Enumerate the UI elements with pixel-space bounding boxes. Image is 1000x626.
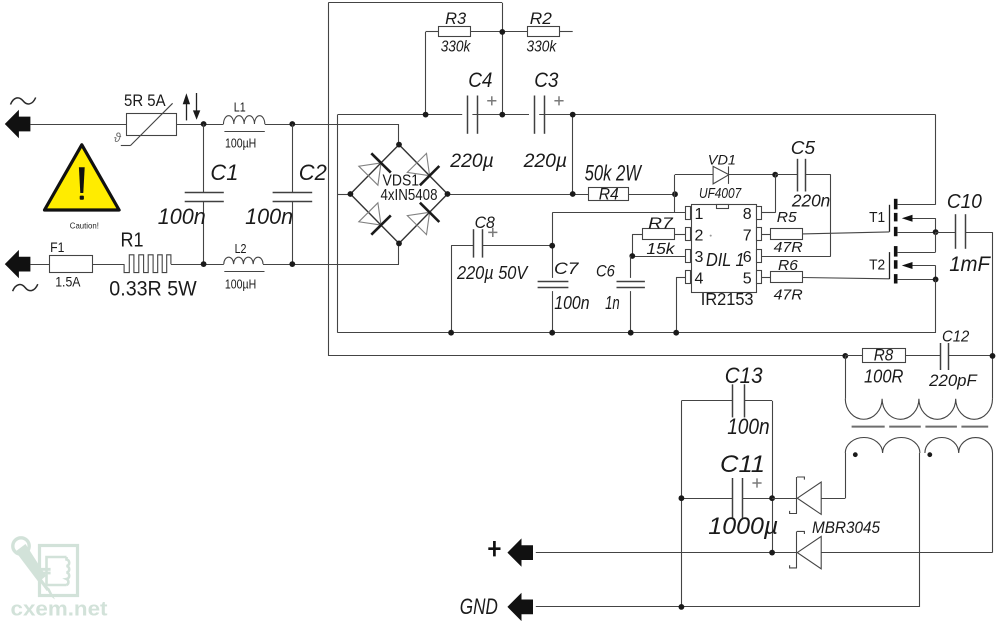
svg-text:2: 2 bbox=[695, 227, 704, 244]
capacitor C5 220n bbox=[775, 174, 798, 176]
fuse F1 1.5A bbox=[49, 264, 92, 266]
svg-text:C12: C12 bbox=[942, 329, 969, 346]
resistor R8 100R bbox=[845, 355, 862, 357]
wire bottom AC to fuse bbox=[30, 264, 49, 266]
wire C8 minus to ground bbox=[451, 246, 453, 333]
wire bridge minus stub bbox=[338, 194, 351, 196]
node T1 source midpoint bbox=[933, 229, 939, 235]
svg-text:100n: 100n bbox=[245, 204, 293, 229]
wire VCC branch vertical bbox=[552, 213, 554, 278]
svg-text:T2: T2 bbox=[869, 258, 885, 274]
svg-text:100n: 100n bbox=[158, 204, 206, 229]
svg-text:330k: 330k bbox=[527, 39, 558, 56]
wire VCC vertical bbox=[674, 175, 676, 213]
wire L2 to bridge bbox=[263, 264, 399, 266]
wire midpoint to T2 drain bbox=[935, 232, 937, 252]
svg-text:R7: R7 bbox=[648, 216, 674, 233]
wire thermistor to L1 bbox=[177, 124, 224, 126]
svg-text:R2: R2 bbox=[530, 10, 552, 28]
diode VD1 UF4007 bbox=[675, 174, 713, 176]
node AC top / C1 tap bbox=[201, 121, 207, 127]
node C8 plus bbox=[549, 243, 555, 249]
node AC bottom / C1 bbox=[201, 261, 207, 267]
svg-text:100n: 100n bbox=[727, 414, 770, 439]
svg-text:1000µ: 1000µ bbox=[708, 513, 778, 540]
transformer secondary winding B bbox=[925, 437, 993, 453]
node rail R2 tap bbox=[570, 112, 576, 118]
node VD1 cathode VB bbox=[772, 172, 778, 178]
node R3-R2 junction bbox=[499, 29, 505, 35]
capacitor C3 220u electrolytic bbox=[534, 96, 536, 134]
svg-text:C5: C5 bbox=[791, 138, 816, 158]
phase dot secondary B bbox=[927, 452, 932, 457]
transformer core bbox=[852, 426, 885, 428]
svg-text:220µ: 220µ bbox=[523, 150, 567, 172]
svg-text:R4: R4 bbox=[599, 186, 619, 204]
current direction arrow up bbox=[186, 104, 188, 120]
svg-text:GND: GND bbox=[460, 594, 498, 619]
node bridge top bbox=[396, 142, 402, 148]
node ground C8 bbox=[448, 330, 454, 336]
svg-text:220n: 220n bbox=[791, 191, 830, 211]
svg-text:C8: C8 bbox=[475, 213, 496, 232]
inductor L1 100uH bbox=[224, 116, 265, 124]
wire T2 source to ground bbox=[935, 279, 937, 332]
svg-text:4xIN5408: 4xIN5408 bbox=[381, 187, 438, 204]
svg-text:220pF: 220pF bbox=[928, 372, 977, 390]
capacitor C11 1000u electrolytic bbox=[681, 498, 732, 500]
svg-text:47R: 47R bbox=[774, 239, 803, 256]
thermistor RK1 5R 5A bbox=[127, 114, 177, 136]
node plus rail C11 tap bbox=[769, 550, 775, 556]
capacitor C12 220pF bbox=[905, 355, 941, 357]
svg-text:C13: C13 bbox=[725, 363, 764, 388]
svg-text:L2: L2 bbox=[235, 242, 247, 256]
svg-text:1n: 1n bbox=[605, 293, 620, 313]
wire up to bridge bottom bbox=[398, 243, 400, 264]
svg-text:VD1: VD1 bbox=[708, 152, 736, 168]
svg-text:R1: R1 bbox=[121, 230, 144, 252]
svg-text:C11: C11 bbox=[720, 451, 765, 478]
capacitor C6 1n bbox=[630, 256, 632, 278]
node ground COM bbox=[673, 330, 679, 336]
svg-text:1mF: 1mF bbox=[949, 253, 991, 276]
resistor R7 15k bbox=[675, 234, 687, 236]
wire DC- vertical bbox=[337, 115, 339, 333]
caution warning triangle bbox=[45, 145, 120, 210]
wire DC+ to rail vertical bbox=[572, 115, 574, 194]
AC input arrow top bbox=[5, 110, 31, 138]
svg-text:R3: R3 bbox=[445, 10, 467, 28]
node C11 right bbox=[769, 495, 775, 501]
svg-text:15k: 15k bbox=[646, 241, 675, 258]
svg-text:3: 3 bbox=[695, 249, 704, 266]
svg-text:1: 1 bbox=[695, 206, 704, 223]
wire net midpoint left edge bbox=[328, 3, 330, 356]
transformer primary winding bbox=[845, 356, 847, 399]
svg-text:100n: 100n bbox=[554, 293, 589, 313]
svg-text:C4: C4 bbox=[468, 69, 492, 92]
node ground C6 bbox=[628, 330, 634, 336]
node DC+ rail tap bbox=[570, 191, 576, 197]
IR2153 pin stubs right bbox=[757, 207, 762, 220]
AC tilde symbol bottom bbox=[13, 284, 38, 291]
svg-text:100R: 100R bbox=[864, 366, 903, 387]
svg-text:100µH: 100µH bbox=[225, 278, 256, 292]
svg-text:C3: C3 bbox=[534, 69, 558, 92]
IR2153 pin stubs left bbox=[686, 207, 691, 220]
node rail R3 tap bbox=[423, 112, 429, 118]
wire DC+ line bbox=[448, 194, 590, 196]
svg-text:5: 5 bbox=[743, 270, 752, 287]
wire fuse to R1 bbox=[92, 264, 124, 266]
diode MBR3045 top bbox=[772, 498, 797, 500]
wire C13 left leg bbox=[681, 401, 683, 607]
svg-text:R8: R8 bbox=[874, 347, 894, 365]
wire VCC pin1 horizontal bbox=[552, 212, 686, 214]
node C11 left bbox=[679, 495, 685, 501]
resistor R3 330k bbox=[425, 32, 427, 115]
wire VB to pin8 bbox=[775, 175, 777, 213]
svg-text:DIL 1: DIL 1 bbox=[706, 250, 745, 270]
wire L1 to bridge bbox=[265, 124, 399, 126]
svg-text:330k: 330k bbox=[441, 39, 472, 56]
capacitor C1 100n bbox=[203, 124, 205, 192]
svg-text:C6: C6 bbox=[596, 262, 615, 281]
transformer secondary winding A bbox=[845, 437, 920, 453]
svg-text:UF4007: UF4007 bbox=[699, 185, 742, 202]
node bridge right bbox=[445, 191, 451, 197]
svg-text:F1: F1 bbox=[50, 240, 64, 255]
AC tilde symbol top bbox=[11, 98, 36, 105]
capacitor C4 220u electrolytic bbox=[467, 96, 469, 134]
node ground C7 bbox=[549, 330, 555, 336]
cxem.net watermark logo bbox=[13, 538, 78, 600]
wire R5 to T1 gate bbox=[802, 232, 889, 234]
svg-text:IR2153: IR2153 bbox=[701, 289, 754, 309]
svg-text:cxem.net: cxem.net bbox=[11, 598, 108, 621]
GND output line bbox=[536, 606, 920, 608]
phase dot secondary A bbox=[853, 452, 858, 457]
node AC bottom / C2 bbox=[289, 261, 295, 267]
wire R1 to L2 bbox=[171, 264, 224, 266]
svg-text:C1: C1 bbox=[210, 160, 238, 185]
svg-text:L1: L1 bbox=[234, 100, 246, 114]
output arrow GND bbox=[507, 593, 533, 621]
svg-text:5R 5A: 5R 5A bbox=[124, 91, 166, 110]
wire DC bus rail y115 bbox=[338, 114, 463, 116]
wire secondary center tap to GND bbox=[919, 453, 921, 607]
svg-text:8: 8 bbox=[743, 206, 752, 223]
svg-text:50k 2W: 50k 2W bbox=[585, 161, 643, 186]
transistor T1 mosfet bbox=[889, 205, 891, 232]
svg-text:7: 7 bbox=[743, 227, 752, 244]
resistor R5 47R bbox=[762, 234, 771, 236]
svg-text:100µH: 100µH bbox=[225, 137, 256, 151]
svg-text:C2: C2 bbox=[299, 160, 327, 185]
capacitor C2 100n bbox=[292, 124, 294, 192]
op-amp U1 IR2153 DIL body bbox=[692, 205, 757, 293]
node CT bbox=[629, 253, 635, 259]
node AC top / C2 tap bbox=[289, 121, 295, 127]
capacitor C8 220u 50V bbox=[451, 245, 473, 247]
node bridge left bbox=[348, 191, 354, 197]
node rail midpoint bbox=[499, 112, 505, 118]
node T2 source bbox=[933, 277, 939, 283]
wire secondary right end bbox=[992, 453, 994, 553]
resistor R2 330k bbox=[502, 31, 527, 33]
bridge rectifier VDS1 4xIN5408 bbox=[350, 145, 399, 194]
capacitor C13 100n bbox=[681, 400, 733, 402]
ground COM line bbox=[338, 332, 936, 334]
svg-text:1.5A: 1.5A bbox=[55, 275, 80, 290]
AC input arrow bottom bbox=[5, 250, 31, 278]
wire down to bridge top bbox=[398, 124, 400, 145]
svg-text:ϑ: ϑ bbox=[114, 131, 122, 145]
svg-text:220µ: 220µ bbox=[449, 150, 493, 172]
output arrow plus bbox=[507, 538, 533, 566]
wire C10 to transformer right bbox=[992, 232, 994, 399]
wire R6 to T2 gate bbox=[802, 278, 889, 279]
svg-text:220µ 50V: 220µ 50V bbox=[456, 262, 529, 283]
svg-text:MBR3045: MBR3045 bbox=[812, 518, 880, 537]
svg-text:47R: 47R bbox=[774, 287, 803, 304]
transistor T2 mosfet bbox=[889, 252, 891, 279]
wire top AC input to thermistor bbox=[30, 124, 126, 126]
diode MBR3045 bottom bbox=[536, 552, 797, 554]
svg-text:4: 4 bbox=[695, 270, 704, 287]
resistor R4 50k 2W bbox=[589, 188, 629, 201]
current direction arrow down bbox=[196, 93, 198, 111]
wire secondary left end bbox=[845, 453, 847, 498]
svg-text:T1: T1 bbox=[869, 210, 885, 226]
svg-text:R5: R5 bbox=[777, 209, 798, 226]
inductor L2 100uH bbox=[224, 257, 263, 264]
capacitor C10 1mF bbox=[936, 232, 956, 234]
svg-text:C7: C7 bbox=[554, 259, 579, 278]
wire rail drop to T1 drain bbox=[935, 115, 937, 205]
svg-text:R6: R6 bbox=[778, 257, 799, 274]
wire net midpoint bottom run to transformer bbox=[328, 355, 845, 357]
resistor R6 47R bbox=[762, 277, 771, 279]
node R4 to VCC bbox=[672, 191, 678, 197]
wire C13 right leg bbox=[772, 401, 774, 553]
label plus output bbox=[488, 541, 500, 556]
wire R3-R2 junction vertical bbox=[502, 3, 504, 115]
svg-text:C10: C10 bbox=[947, 191, 982, 213]
node snubber left bbox=[842, 353, 848, 359]
svg-text:0.33R 5W: 0.33R 5W bbox=[109, 278, 197, 301]
node snubber right bbox=[990, 353, 996, 359]
svg-text:Caution!: Caution! bbox=[70, 220, 99, 230]
node bridge bottom bbox=[396, 241, 402, 247]
wire pin3 CT bbox=[631, 256, 686, 258]
resistor R1 0.33R 5W bbox=[124, 255, 171, 273]
node GND C13 tap bbox=[679, 604, 685, 610]
capacitor C7 100n bbox=[538, 281, 569, 283]
wire pin4 COM bbox=[676, 277, 686, 279]
wire C5 to pin6 VS bbox=[830, 175, 832, 257]
wire net midpoint top edge bbox=[328, 2, 502, 4]
